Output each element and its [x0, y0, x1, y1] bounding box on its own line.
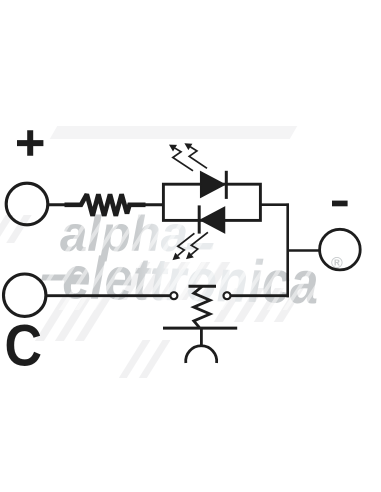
- wire C terminal to left contact: [46, 294, 170, 297]
- contact right: [224, 292, 231, 299]
- wire right vertical bus: [286, 203, 289, 297]
- LED D1 cathode bar: [225, 171, 228, 199]
- LED module box: [163, 184, 260, 220]
- resistor R1: [65, 194, 146, 216]
- LED D2 cathode bar: [198, 205, 201, 233]
- actuator dome: [186, 346, 217, 363]
- switch base bar: [163, 327, 237, 330]
- LED D1 triangle: [201, 172, 225, 197]
- terminal MINUS: [320, 229, 361, 270]
- watermark dash before elettronica: [41, 275, 86, 281]
- terminal C: [4, 274, 46, 316]
- contact left: [170, 292, 177, 299]
- light arrow D1 left: [169, 145, 193, 171]
- wire bus to minus terminal: [288, 249, 320, 252]
- actuator stem: [200, 328, 203, 346]
- spring: [194, 286, 210, 328]
- wire LED box to right bus: [260, 203, 289, 206]
- watermark faint stripe band top: [50, 126, 298, 139]
- LED D2 triangle: [201, 207, 225, 232]
- terminal PLUS: [6, 183, 48, 225]
- svg-text:C: C: [5, 314, 43, 379]
- wire resistor to LED box: [145, 203, 165, 206]
- light arrow D1 right: [184, 143, 207, 168]
- watermark dash after alpha: [186, 243, 213, 250]
- wire right contact to bus: [231, 294, 289, 297]
- light arrow D2 left: [173, 233, 195, 260]
- watermark white slash texture over letters: [0, 210, 368, 310]
- watermark faint diagonal stripes: [0, 215, 350, 378]
- switch armature top bar: [189, 285, 217, 288]
- minus sign: [332, 201, 348, 207]
- wire plus terminal to resistor lead: [48, 203, 66, 206]
- plus sign: [17, 130, 43, 155]
- light arrow D2 right: [186, 232, 208, 259]
